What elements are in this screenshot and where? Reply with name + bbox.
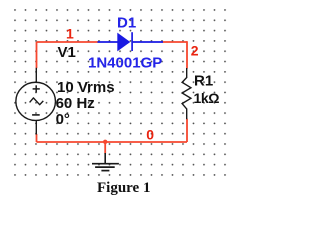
source V1 top pin (35, 68, 37, 83)
svg-text:2: 2 (191, 43, 199, 59)
junction dot at ground node (103, 140, 107, 144)
resistor R1 top lead (186, 68, 188, 78)
source V1 circle body (16, 82, 56, 120)
svg-text:Figure 1: Figure 1 (97, 180, 150, 196)
wire right vertical upper segment (186, 41, 188, 68)
ground symbol bar 2 (95, 166, 115, 168)
resistor R1 zigzag body (182, 78, 191, 109)
source V1 plus sign (33, 85, 40, 92)
source V1 sine symbol (30, 98, 44, 105)
wire right vertical lower segment (186, 119, 188, 142)
svg-text:0: 0 (146, 127, 154, 143)
svg-text:0°: 0° (56, 111, 70, 128)
diode D1 left lead (98, 41, 118, 43)
resistor R1 bottom lead (186, 109, 188, 120)
diode D1 triangle (anode) (117, 33, 130, 52)
wire left vertical segment (36, 42, 38, 68)
svg-text:1kΩ: 1kΩ (194, 90, 220, 106)
source V1 bottom pin (35, 121, 37, 135)
wire top-right horizontal segment (node 2) (163, 41, 188, 43)
svg-text:V1: V1 (58, 44, 76, 61)
ground symbol bar 3 (101, 170, 109, 172)
svg-text:10 Vrms: 10 Vrms (57, 79, 115, 96)
diode D1 cathode bar (131, 32, 133, 51)
svg-text:1: 1 (66, 25, 74, 41)
svg-text:60 Hz: 60 Hz (56, 95, 95, 112)
svg-text:R1: R1 (194, 73, 213, 90)
wire left bottom vertical segment (36, 134, 38, 142)
svg-text:1N4001GP: 1N4001GP (88, 54, 162, 71)
ground symbol bar 1 (92, 163, 119, 165)
source V1 minus sign (32, 114, 40, 116)
diode D1 right lead (132, 41, 163, 43)
wire ground stub (104, 142, 106, 154)
wire bottom horizontal segment (node 0) (37, 141, 188, 143)
svg-text:D1: D1 (117, 15, 136, 32)
ground symbol stem (104, 153, 106, 163)
wire top-left horizontal segment (node 1) (37, 41, 99, 43)
